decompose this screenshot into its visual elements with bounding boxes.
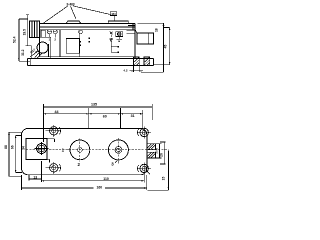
dim line 19.5 vertical [26, 15, 29, 46]
top dim line 135 [44, 106, 153, 108]
cavity wall [40, 37, 51, 58]
bottom dim 160 [22, 175, 147, 190]
terminal screw 1 [47, 30, 51, 34]
actuation mark right [110, 32, 113, 35]
roller [37, 42, 48, 53]
side entry block top (hatched) [147, 144, 156, 150]
lever arm [34, 52, 42, 59]
base plate [28, 59, 154, 66]
roller leader arrow [30, 51, 38, 57]
cover boss [66, 21, 81, 24]
inner circle [37, 144, 47, 154]
svg-text:26: 26 [159, 153, 163, 157]
corner hole TR [137, 126, 150, 138]
right dim line 45 [154, 28, 170, 65]
svg-text:13: 13 [33, 175, 37, 179]
svg-text:19.5: 19.5 [23, 29, 27, 36]
box stem [113, 16, 115, 22]
right terminal screw [117, 32, 121, 36]
callout box M4 [110, 12, 116, 16]
side entry block bottom (hatched) [147, 152, 156, 158]
svg-text:15: 15 [161, 177, 165, 181]
body bottom line [40, 56, 136, 58]
svg-text:66: 66 [11, 145, 15, 149]
left dim line 66 [16, 136, 22, 173]
svg-text:31: 31 [131, 114, 135, 118]
inner step top [47, 139, 54, 142]
side dim 15 [148, 151, 169, 191]
leader to cover boss [71, 6, 77, 19]
inner step bottom [47, 159, 49, 162]
corner hole BL [46, 162, 62, 174]
svg-text:135: 135 [91, 102, 97, 106]
terminal screw 2 [53, 30, 57, 34]
bottom dim 110 [42, 174, 145, 183]
dim line 52.4 vertical [18, 19, 20, 61]
right terminal box [116, 32, 123, 37]
mechanism stem [79, 34, 81, 57]
right dim line 18 [138, 23, 164, 72]
leader to plunger cover left [43, 6, 68, 23]
plunger block [30, 21, 40, 38]
svg-text:34: 34 [22, 146, 26, 150]
contact dots b [89, 37, 91, 39]
travel leader ticks [111, 42, 117, 53]
dim ext bottom [19, 60, 30, 62]
shelf vertical [59, 30, 61, 57]
bottom dim 13 [29, 161, 42, 182]
conduit circle 2 [108, 140, 128, 160]
svg-text:52.4: 52.4 [12, 36, 16, 43]
right tab [137, 33, 154, 44]
svg-text:31.2: 31.2 [21, 49, 25, 56]
mounting lug right (hatched) [144, 57, 150, 66]
horizontal centerline [26, 149, 169, 151]
svg-text:44: 44 [55, 110, 59, 114]
svg-text:4.2: 4.2 [123, 69, 128, 73]
top dim line 44/60/31 [44, 113, 143, 115]
terminal screw 3 [79, 30, 83, 34]
side dim 30.5 [156, 144, 162, 158]
svg-text:M4: M4 [112, 12, 116, 16]
body left edge [39, 24, 41, 57]
body internal partitions [48, 44, 50, 57]
outer plate [22, 128, 147, 174]
cover top line [40, 23, 136, 25]
svg-text:110: 110 [103, 177, 109, 181]
roller bracket step [26, 46, 32, 59]
leader to right box label [74, 6, 111, 15]
right step lines [127, 24, 135, 34]
svg-text:60: 60 [103, 114, 107, 118]
corner hole BR [137, 162, 150, 174]
left dim line 88 [9, 132, 22, 176]
svg-text:30.5: 30.5 [155, 148, 159, 154]
body right edge [134, 24, 136, 59]
inner mechanism box [66, 39, 79, 54]
dim 4.2 under lug [130, 66, 144, 72]
terminal stems [49, 34, 55, 38]
svg-text:3-M3: 3-M3 [66, 2, 74, 6]
side dim 26 [160, 142, 166, 164]
raised right cover [108, 21, 128, 24]
top dim ext lines [44, 104, 153, 142]
contact dots [80, 41, 82, 43]
conduit circle 1 [70, 140, 90, 160]
dim ext top [19, 18, 28, 20]
small housing rect [41, 30, 45, 37]
plunger block inner lines [32, 21, 37, 38]
base seam [29, 59, 31, 66]
svg-text:160: 160 [96, 185, 102, 189]
cover joint lines [40, 27, 136, 30]
inner rect [26, 139, 47, 160]
svg-text:88: 88 [4, 145, 8, 149]
svg-text:18: 18 [154, 28, 158, 32]
svg-text:45: 45 [163, 45, 167, 49]
corner hole TL [46, 125, 62, 137]
mounting lug left (hatched) [134, 57, 140, 66]
